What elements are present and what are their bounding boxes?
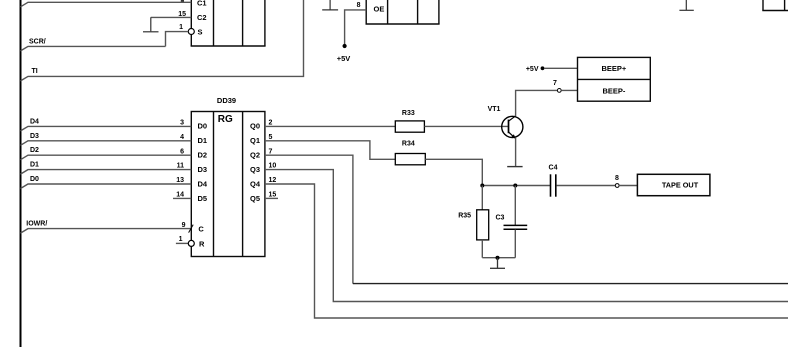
wire junction to C3 (514, 186, 516, 226)
wire VT1 collector up to pin 7 circle (516, 90, 558, 116)
svg-text:15: 15 (178, 11, 186, 18)
wire bottom rail R35-C3 (482, 257, 515, 259)
wire C4 to pin 8 circle (557, 185, 616, 187)
svg-text:D0: D0 (30, 176, 39, 183)
wire C3 bottom (514, 230, 516, 258)
wire D0 to pin 13 (21, 184, 192, 189)
wire TI (21, 0, 304, 81)
svg-text:3: 3 (180, 120, 184, 127)
svg-text:RG: RG (218, 114, 233, 125)
transistor VT1 (502, 116, 523, 139)
svg-text:Q0: Q0 (250, 122, 260, 131)
wire SCR/ (21, 46, 166, 51)
terminal circle pin 7 (557, 89, 561, 93)
svg-text:14: 14 (176, 192, 184, 199)
wire IOWR/ to pin 9 (21, 229, 192, 234)
svg-text:1: 1 (179, 236, 183, 243)
svg-text:D2: D2 (30, 147, 39, 154)
terminal circle pin 8 (615, 184, 619, 188)
chip DD39 body (register RG) (191, 112, 265, 257)
terminal dot +5V (BEEP) (541, 66, 545, 70)
svg-text:D4: D4 (198, 179, 208, 188)
connector box BEEP+ / BEEP- (578, 57, 651, 101)
wire R33 to VT1 base (424, 125, 508, 127)
svg-text:TI: TI (32, 68, 38, 75)
wire junction to R35 (481, 186, 483, 210)
svg-text:R33: R33 (402, 110, 415, 117)
wire D3 to pin 4 (21, 141, 192, 146)
wire pin8 circle to TAPE OUT box (619, 185, 637, 187)
svg-text:OE: OE (374, 4, 385, 13)
wire D1 to pin 11 (21, 170, 192, 175)
resistor R35 (477, 210, 489, 240)
capacitor C3 (504, 225, 528, 229)
terminal +5V (OE) (343, 44, 347, 48)
bus: data/address bus vertical line (20, 0, 22, 347)
wire C2 pin 15 (151, 16, 192, 18)
wire stub pin 15 (Q5) (265, 197, 278, 199)
wire R35 bottom (481, 240, 483, 258)
svg-text:S: S (198, 27, 203, 36)
svg-text:D5: D5 (198, 194, 208, 203)
junction dot (R34 node) (480, 184, 484, 188)
svg-text:2: 2 (269, 120, 273, 127)
ground G4 (VT1 emitter) (507, 166, 522, 168)
svg-text:5: 5 (269, 134, 273, 141)
wire D2 to pin 6 (21, 155, 192, 160)
svg-text:C3: C3 (496, 214, 505, 221)
wire stub pin 1 (R) (176, 242, 189, 244)
wire S pin 1 to SCR/ (166, 32, 189, 47)
svg-text:R34: R34 (402, 141, 415, 148)
svg-text:9: 9 (182, 222, 186, 229)
svg-text:C: C (198, 224, 204, 233)
junction dot (ground node) (496, 256, 500, 260)
svg-text:C2: C2 (197, 13, 207, 22)
wire junction row to C4 (482, 185, 550, 187)
junction dot (C3 node) (513, 184, 517, 188)
svg-text:D4: D4 (30, 118, 39, 125)
wire stub pin 14 (173, 197, 191, 199)
svg-text:BEEP+: BEEP+ (601, 64, 626, 73)
svg-text:D1: D1 (198, 136, 208, 145)
chip U-OE body (buffer, cut off at top) (366, 0, 440, 24)
wire OE pin 8 to +5V (345, 10, 367, 44)
svg-text:+5V: +5V (337, 54, 351, 63)
partial pin number above C1 (181, 0, 184, 2)
chip U-top body (C1,C2,S decoder, cut off at top) (191, 0, 266, 46)
svg-text:1: 1 (179, 24, 183, 31)
wire +5V to BEEP+ box (544, 67, 577, 69)
svg-text:Q2: Q2 (250, 151, 260, 160)
connector box TAPE OUT (637, 174, 710, 195)
svg-text:D3: D3 (30, 133, 39, 140)
wire D4 to pin 3 (21, 126, 192, 130)
svg-text:Q5: Q5 (250, 194, 260, 203)
svg-text:7: 7 (269, 148, 273, 155)
wire Q3 pin 10 (down to bottom bus) (265, 170, 788, 302)
svg-text:C1: C1 (197, 0, 207, 7)
svg-text:IOWR/: IOWR/ (26, 221, 47, 228)
svg-text:BEEP-: BEEP- (602, 86, 625, 95)
box fragment top-right corner (762, 0, 788, 11)
wire Q0 pin 2 to R33 (265, 125, 395, 127)
svg-text:8: 8 (615, 175, 619, 182)
svg-text:15: 15 (269, 192, 277, 199)
wire VT1 emitter to ground (515, 138, 517, 166)
svg-text:8: 8 (357, 2, 361, 9)
wire Q2 pin 7 (down to bottom bus) (265, 155, 353, 283)
wire R34 to junction node (425, 159, 482, 185)
svg-text:4: 4 (180, 134, 184, 141)
svg-text:6: 6 (180, 148, 184, 155)
inverter bubble on R pin (188, 240, 194, 246)
inverter bubble on S pin (188, 29, 194, 35)
svg-text:7: 7 (553, 80, 557, 87)
svg-text:Q3: Q3 (250, 165, 260, 174)
resistor R34 (395, 154, 425, 165)
svg-text:12: 12 (269, 177, 277, 184)
wire Q1 pin 5 to R34 (265, 141, 395, 160)
wire pin7 circle to BEEP- box (561, 89, 577, 91)
ground G5 (R35/C3) (490, 258, 505, 269)
svg-text:Q1: Q1 (250, 136, 260, 145)
svg-text:10: 10 (269, 163, 277, 170)
svg-text:R: R (199, 239, 205, 248)
wire C1 (pin from bus to chip) (21, 2, 192, 7)
ground G2 (left of OE chip) (322, 0, 338, 10)
wire Q4 pin 12 (down to bottom bus) (265, 184, 788, 318)
svg-text:11: 11 (177, 163, 185, 170)
ground G1 (on C2 wire) (143, 17, 159, 32)
svg-text:D2: D2 (198, 151, 208, 160)
resistor R33 (395, 121, 424, 132)
svg-text:+5V: +5V (526, 66, 539, 73)
svg-text:VT1: VT1 (488, 106, 501, 113)
svg-text:D3: D3 (198, 165, 208, 174)
svg-text:D1: D1 (30, 162, 39, 169)
capacitor C4 (551, 174, 556, 196)
svg-text:13: 13 (176, 177, 184, 184)
dynamic input slash on C pin (189, 225, 194, 233)
svg-text:R35: R35 (458, 212, 471, 219)
svg-text:TAPE OUT: TAPE OUT (662, 181, 699, 190)
svg-text:D0: D0 (198, 122, 208, 131)
svg-text:SCR/: SCR/ (29, 39, 46, 46)
svg-text:C4: C4 (549, 164, 558, 171)
ground G3 (top right) (679, 0, 693, 10)
svg-text:Q4: Q4 (250, 179, 261, 188)
svg-text:DD39: DD39 (217, 96, 236, 105)
